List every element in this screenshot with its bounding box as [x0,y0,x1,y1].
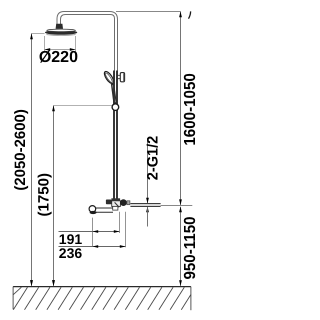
shower head connector nut [56,24,63,29]
hand shower handle [111,83,117,104]
svg-text:950-1150: 950-1150 [182,216,199,279]
svg-text:1600-1050: 1600-1050 [182,73,199,146]
dim 1600-1050 arrows [179,12,182,18]
ground hatch [13,287,191,310]
faucet lower neck [113,206,118,210]
dim 2-G1/2 arrows [146,198,149,204]
faucet left connector [106,200,112,205]
dim 191 extension line left [92,218,94,247]
dim Ø220 extension lines [45,36,76,52]
dim 191 arrows [93,230,99,233]
hand shower holder knob [118,73,125,82]
dim 236 extension line right [125,212,127,248]
faucet body [112,201,121,207]
dim 1600-1050 extension line [116,11,181,13]
overhead shower head disc [45,29,77,35]
dim Ø220 line and arrows [45,49,76,51]
faucet lever [115,202,120,207]
wall pipe extension line [161,205,193,207]
ground top line [13,286,191,288]
dim 2-G1/2 line lower [147,207,149,227]
faucet knob cap [127,201,130,205]
dim 2-G1/2 line upper [147,138,149,203]
dim (1750) line [53,106,55,286]
dim 950-1150 line [180,207,182,286]
svg-text:(2050-2600): (2050-2600) [12,109,29,191]
dim 950-1150 arrows [179,207,182,213]
dim 236 arrows [93,245,99,248]
svg-text:2-G1/2: 2-G1/2 [145,136,162,181]
tick mark top right [189,11,191,18]
dim 1600-1050 line [180,12,182,205]
wall supply pipe [130,204,160,206]
dim (2050-2600) line [31,34,33,286]
ground left edge [12,287,14,310]
faucet top cap [111,198,120,201]
dim (2050-2600) extension line [32,33,45,35]
shower arm pipe [57,12,118,81]
svg-text:236: 236 [59,245,83,261]
dim (2050-2600) arrows [30,34,33,40]
hand shower head [103,70,116,85]
ground right edge [190,287,192,311]
dim 191 extension line right [119,212,121,233]
dim (1750) arrows [52,106,55,112]
spout tube [94,208,114,212]
faucet right knob [120,199,127,206]
dim 191 line [59,231,120,233]
ground arrows [30,280,33,286]
svg-text:(1750): (1750) [36,173,53,217]
dim 236 line [59,246,126,248]
riser lower tube [114,71,117,200]
dim (1750) extension line [54,105,112,107]
spout outlet ball [89,206,96,213]
hose ball joint [112,104,119,111]
svg-text:Ø220: Ø220 [39,49,78,66]
